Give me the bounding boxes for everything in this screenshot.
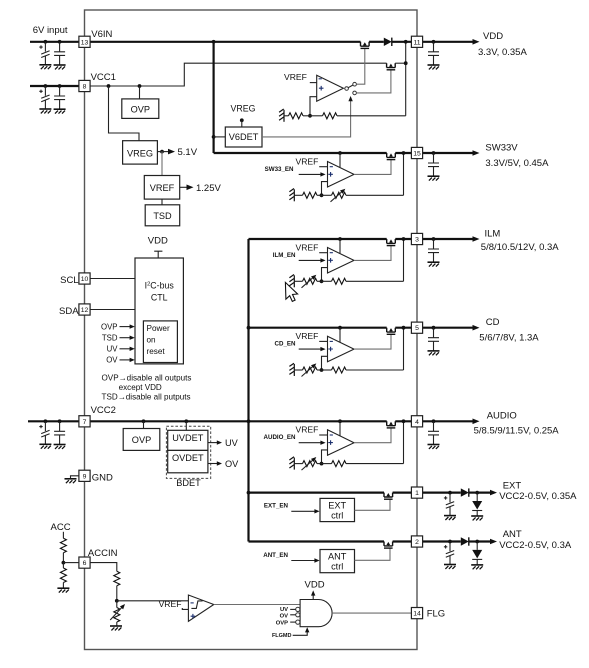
op-amp error amplifier [328,248,355,274]
resistor lower [303,192,318,198]
gate input OV bubble [296,613,300,617]
switch SW1 blade [348,85,353,88]
svg-text:OVP→disable all outputs: OVP→disable all outputs [102,373,192,382]
svg-text:UV: UV [107,345,119,354]
wire rail y=421.3 [249,420,387,422]
svg-text:VREF: VREF [150,183,175,193]
transistor ANT pass PMOS [384,542,393,549]
node EXT cap junction [448,491,452,495]
svg-text:3.3V, 0.35A: 3.3V, 0.35A [478,47,527,58]
wire VDD sense vertical [405,42,407,116]
node VCC2 OVP junction [142,419,146,423]
pin 1 [411,487,422,498]
wire VREF to TSD [161,199,163,205]
node V6IN cap2 junction [58,40,62,44]
wire OVP arrow [120,326,132,328]
svg-text:TSD→disable all putputs: TSD→disable all putputs [102,392,191,401]
svg-text:5.1V: 5.1V [178,147,198,158]
svg-text:GND: GND [92,472,113,483]
svg-text:15: 15 [413,151,421,158]
node feedback divider [320,368,324,372]
svg-text:5/6/7/8V, 1.3A: 5/6/7/8V, 1.3A [479,332,539,343]
wire feedback to output [346,369,404,371]
svg-text:9: 9 [83,473,87,480]
svg-text:CD_EN: CD_EN [275,341,297,348]
svg-text:ACCIN: ACCIN [88,548,118,559]
diode ANT clamp [476,542,478,550]
wire UV arrow [120,348,132,350]
wire ANT ctrl to gate [355,548,391,560]
pin 2 [411,536,422,547]
wire node to pin 6 [63,562,79,564]
wire throw2 to Q2 gate [356,70,391,93]
wire SW33_EN arrow [299,173,322,175]
node output cap junction [432,151,436,155]
wire node to R2 [310,115,323,117]
node VREG output junction [160,150,164,154]
node VDD output junction [404,40,408,44]
block OVDET [168,450,208,472]
node output cap junction [432,237,436,241]
svg-text:AUDIO_EN: AUDIO_EN [264,434,297,441]
capacitor C2 [59,42,61,52]
node VCC1 to VREG junction [107,84,111,88]
svg-text:VCC2-0.5V, 0.35A: VCC2-0.5V, 0.35A [499,491,577,502]
transistor EXT pass PMOS [384,493,393,500]
svg-text:TSD: TSD [102,334,118,343]
svg-text:VCC2-0.5V, 0.3A: VCC2-0.5V, 0.3A [499,540,572,551]
node bus EXT junction [247,491,251,495]
svg-text:VDD: VDD [305,580,325,591]
capacitor C5 polarized [44,421,46,431]
transistor pass PMOS [387,328,396,335]
wire SDA [90,309,135,311]
wire opamp output to gate [354,160,391,175]
wire VDD tee [154,251,162,258]
wire feedback to output [346,463,404,465]
node VCC2 cap1 junction [44,419,48,423]
wire R4 to ground [62,583,64,588]
svg-text:EXT_EN: EXT_EN [264,503,289,510]
svg-text:3: 3 [415,237,419,244]
svg-text:5/8/10.5/12V, 0.3A: 5/8/10.5/12V, 0.3A [481,242,559,253]
svg-text:OVDET: OVDET [172,453,204,463]
wire output arrow CD [423,327,476,329]
svg-text:VREF: VREF [295,156,318,166]
block Power on reset [143,321,177,363]
wire FLGMD [293,629,308,635]
svg-text:FLG: FLG [427,609,445,620]
svg-text:SDA: SDA [59,306,79,317]
wire R5 to node [116,586,118,601]
op-amp error amplifier [328,430,355,456]
svg-text:ILM: ILM [485,228,501,239]
pin 9 [79,470,90,481]
block OVP upper [122,99,159,119]
block I2C-bus CTL [135,258,183,364]
svg-text:VCC1: VCC1 [91,72,116,83]
svg-text:VREG: VREG [127,149,153,159]
wire gate output [332,612,411,614]
node feedback divider [320,193,324,197]
resistor upper [322,369,332,371]
svg-text:ANT: ANT [328,551,347,561]
node U1 feedback node [308,114,312,118]
resistor R6 variable [114,608,120,623]
wire VCC1 to OVP [139,86,141,99]
wire feedback input [322,182,328,196]
svg-text:VREF: VREF [284,72,307,82]
node bus VCC2 junction [247,419,251,423]
block TSD [145,205,180,226]
node opamp supply tap [338,151,342,155]
wire OV arrow [120,359,132,361]
svg-text:TSD: TSD [153,211,172,221]
node output junction [402,237,406,241]
svg-text:on: on [147,336,157,345]
wire ANT_EN arrow [291,560,316,562]
capacitor output CD [433,328,435,338]
wire output arrow ILM [423,238,476,240]
svg-text:CTL: CTL [151,292,168,302]
wire VDD arrow up [312,593,314,600]
wire ANT rail [249,540,385,542]
pin 12 [79,304,90,315]
svg-text:ctrl: ctrl [331,511,343,521]
node output cap junction [432,40,436,44]
node opamp supply tap [338,326,342,330]
ground slanted [289,189,294,202]
svg-text:6V input: 6V input [33,25,68,36]
block EXT ctrl [320,498,355,521]
wire VREG output 5.1V arrow [157,151,171,153]
pin 6 [79,557,90,568]
node output cap junction [432,326,436,330]
node Q2 drain junction [404,61,408,65]
wire rail y=153 [214,152,387,154]
svg-text:VCC2: VCC2 [91,405,116,416]
wire rail y=239 [249,238,387,240]
wire opamp output to gate [354,246,391,261]
svg-text:BDET: BDET [176,478,201,488]
svg-text:3.3V/5V, 0.45A: 3.3V/5V, 0.45A [485,158,549,169]
wire opamp supply [339,328,341,342]
node VREG terminal dot [240,118,244,122]
wire opamp output to gate [354,334,391,349]
wire R2 to VDD sense [337,115,406,117]
resistor upper [322,463,332,465]
wire CD_EN arrow [299,348,322,350]
wire EXT rail [249,492,385,494]
resistor variable upper [322,194,332,196]
svg-text:OV: OV [225,459,239,469]
wire VCC1 external [30,85,79,87]
wire VREG to VREF [161,152,163,176]
wire opamp supply [339,153,341,167]
svg-text:VDD: VDD [483,31,503,42]
transistor Q1 pass PMOS [361,42,370,49]
wire to V6DET [214,136,226,138]
node VCC1 cap1 junction [44,84,48,88]
svg-text:1: 1 [415,490,419,497]
transistor pass PMOS [387,239,396,246]
pin 8 [79,80,90,91]
node V6IN branch junction [212,40,216,44]
resistor R3 [60,538,66,553]
ground GND pin [65,479,77,483]
svg-text:SW33_EN: SW33_EN [265,166,294,173]
ground slanted [289,275,294,288]
wire output arrow VDD [423,41,476,43]
wire output EXT [423,492,443,494]
svg-text:ACC: ACC [51,522,71,533]
svg-text:14: 14 [413,611,421,618]
capacitor C1 polarized [44,42,46,52]
svg-text:6: 6 [83,560,87,567]
wire ANT arrow [477,540,493,542]
wire UV arrow [208,442,219,444]
svg-text:OVP: OVP [131,105,150,115]
wire VREF to plus input [182,608,188,609]
node output cap junction [432,419,436,423]
block OVP lower [123,429,160,451]
svg-text:VREF: VREF [159,599,182,609]
svg-text:OV: OV [106,356,118,365]
svg-text:VREF: VREF [295,331,318,341]
wire V6IN internal rail [90,41,360,43]
transistor Q2 pass PMOS [387,63,396,70]
FLG pin 14 [411,608,422,619]
svg-text:12: 12 [81,307,89,314]
svg-text:1.25V: 1.25V [196,183,221,194]
capacitor output ILM [433,239,435,249]
wire supply bus vertical [247,239,249,542]
node feedback divider [320,279,324,283]
wire EXT_EN arrow [291,510,316,512]
wire V6IN drop to SW33V rail [213,42,215,153]
resistor R5 [114,571,120,586]
wire comparator output [214,604,300,606]
svg-text:OVP: OVP [101,322,117,331]
node ANT cap junction [448,540,452,544]
wire diode to node [469,540,477,542]
node EXT clamp junction [475,491,479,495]
node ACC divider [62,561,66,565]
wire EXT arrow [477,492,493,494]
svg-text:CD: CD [486,317,500,328]
svg-text:FLGMD: FLGMD [272,633,292,639]
wire VCC2 to UVDET [185,421,187,430]
mouse cursor [285,282,297,301]
wire opamp output to gate [354,428,391,443]
wire EXT ctrl to gate [355,499,391,510]
pin 4 [411,416,422,427]
wire VREF to inverting input [319,166,327,168]
wire VCC1 to VREG [109,86,140,141]
wire output arrow AUDIO [423,420,476,422]
pin 7 [79,416,90,427]
node bus CD junction [247,326,251,330]
AND gate U3 [300,600,332,627]
wire 6V input rail [30,41,79,43]
svg-text:5/8.5/9/11.5V, 0.25A: 5/8.5/9/11.5V, 0.25A [474,426,560,437]
svg-text:5: 5 [415,325,419,332]
pin 10 [79,273,90,284]
svg-text:reset: reset [147,347,166,356]
node feedback divider [320,462,324,466]
wire throw1 to Q1 gate [356,48,364,84]
capacitor ANT polarized [449,542,451,552]
wire V6DET output [262,99,351,137]
wire opamp supply [339,239,341,253]
block ANT ctrl [320,550,355,573]
comparator U2 [188,595,213,621]
svg-text:UV: UV [225,438,239,448]
node V6DET tap [212,135,216,139]
switch SW1 throw2 [353,91,357,95]
svg-text:V6IN: V6IN [91,29,112,40]
pin 15 [411,147,422,158]
wire SCL [90,278,135,280]
capacitor EXT polarized [449,493,451,503]
op-amp error amplifier [328,336,355,362]
node output junction [402,419,406,423]
ground ACC [57,588,69,592]
transistor pass PMOS [387,421,396,428]
resistor variable lower [303,278,318,284]
wire VCC1 internal [90,63,387,86]
wire R6 to ground [116,622,118,626]
wire rail y=327.7 [249,327,387,329]
wire VREF to inverting input [319,434,327,436]
resistor upper [322,280,332,282]
diode D1 [384,38,392,46]
svg-text:OV: OV [280,614,289,620]
resistor R4 [60,568,66,583]
wire VCC2 external [28,420,79,422]
svg-text:UVDET: UVDET [172,433,204,443]
node opamp supply tap [338,237,342,241]
wire opamp supply [339,421,341,435]
wire feedback input [322,356,328,370]
node VCC2 cap2 junction [58,419,62,423]
gate input OVP bubble [296,620,300,624]
op-amp error amplifier [328,162,355,188]
node output junction [402,151,406,155]
svg-text:13: 13 [81,39,89,46]
svg-text:SCL: SCL [60,275,78,286]
wire ACC stub [62,532,64,538]
node V6IN cap1 junction [44,40,48,44]
wire TSD arrow [120,337,132,339]
wire U1 feedback input [310,97,317,116]
block VREG [123,141,158,164]
wire ACCIN internal [90,563,117,572]
pin 11 [411,36,422,47]
wire output arrow SW33V [423,152,476,154]
IC boundary box [85,10,418,650]
svg-text:AUDIO: AUDIO [487,411,517,422]
capacitor C3 polarized [44,86,46,96]
block VREF [144,176,179,200]
wire feedback to output [346,194,404,196]
svg-text:2: 2 [415,539,419,546]
svg-text:VDD: VDD [148,235,168,246]
capacitor C4 [59,86,61,96]
svg-text:4: 4 [415,419,419,426]
svg-text:ANT_EN: ANT_EN [263,552,288,559]
svg-text:8: 8 [83,84,87,91]
pin 3 [411,233,422,244]
resistor variable lower [303,461,318,467]
op-amp U1 [317,75,344,101]
wire feedback input [322,268,328,282]
ground R6 [110,626,122,630]
capacitor output AUDIO [433,421,435,431]
svg-text:ctrl: ctrl [331,562,343,572]
svg-text:except VDD: except VDD [119,383,162,392]
svg-text:UV: UV [280,607,288,613]
wire R1 to node [303,115,310,117]
wire ILM_EN arrow [299,259,322,261]
wire AUDIO_EN arrow [299,442,322,444]
pin 13 [79,36,90,47]
resistor R1 [289,113,304,119]
wire U1 inverting input [310,82,317,84]
wire GND [71,476,79,479]
ground G1 slanted [279,109,284,122]
transistor pass PMOS [387,153,396,160]
diode EXT clamp [476,493,478,501]
svg-text:VREF: VREF [295,242,318,252]
svg-text:11: 11 [413,39,420,46]
capacitor C6 [59,421,61,431]
node opamp supply tap [338,419,342,423]
wire VREF output 1.25V arrow [180,186,191,188]
wire Q2 drain [395,62,406,64]
diode ANT series [461,537,469,545]
svg-text:10: 10 [81,276,89,283]
wire VREF to inverting input [319,340,327,342]
svg-text:V6DET: V6DET [229,132,259,142]
block UVDET [168,430,208,450]
node VCC1 cap2 junction [58,84,62,88]
switch SW1 throw1 [353,82,357,86]
node comparator input [115,599,119,603]
capacitor output VDD [433,42,435,52]
wire VCC2 internal [90,420,248,422]
wire OV arrow [208,463,219,465]
pin 5 [411,322,422,333]
switch SW1 common [345,87,347,89]
svg-text:SW33V: SW33V [485,142,518,153]
wire VREG terminal to V6DET [241,120,243,127]
wire node to comparator [117,600,189,602]
wire VREF to inverting input [319,252,327,254]
svg-text:Power: Power [147,324,170,333]
wire feedback input [322,450,328,464]
block V6DET [225,127,262,147]
ground slanted [289,363,294,376]
wire Q1 to D1 [369,41,384,43]
resistor variable lower [303,367,318,373]
diode EXT series [461,488,469,496]
svg-text:VREF: VREF [295,425,318,435]
svg-text:EXT: EXT [328,500,346,510]
wire diode to node [469,492,477,494]
ground slanted [289,457,294,470]
node VCC2 UVDET junction [184,419,188,423]
